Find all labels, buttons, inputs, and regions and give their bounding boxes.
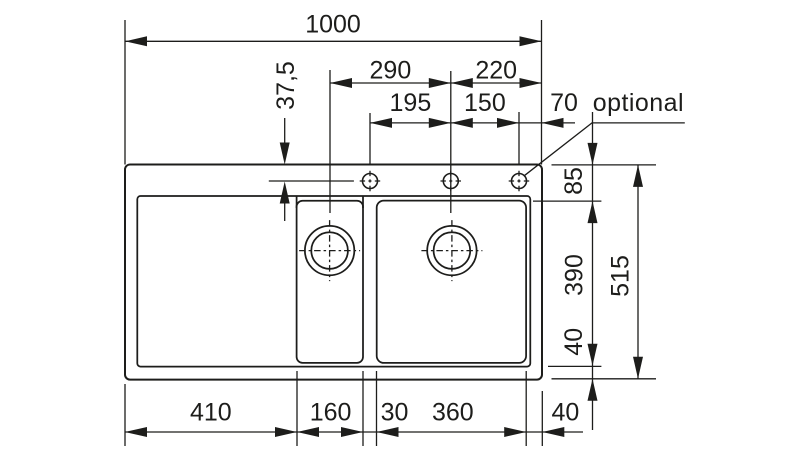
svg-text:40: 40	[560, 328, 588, 356]
svg-text:40: 40	[551, 399, 579, 427]
svg-text:160: 160	[310, 399, 352, 427]
svg-text:optional: optional	[593, 89, 684, 117]
svg-text:410: 410	[190, 399, 232, 427]
svg-text:85: 85	[560, 167, 588, 195]
svg-text:30: 30	[381, 399, 409, 427]
svg-text:220: 220	[475, 57, 517, 85]
svg-text:37,5: 37,5	[272, 61, 300, 110]
svg-text:360: 360	[432, 399, 474, 427]
svg-text:195: 195	[390, 89, 432, 117]
svg-text:70: 70	[550, 89, 578, 117]
svg-text:1000: 1000	[305, 11, 361, 39]
svg-text:290: 290	[370, 57, 412, 85]
svg-text:515: 515	[607, 255, 635, 297]
svg-text:390: 390	[561, 254, 589, 296]
svg-text:150: 150	[464, 89, 506, 117]
